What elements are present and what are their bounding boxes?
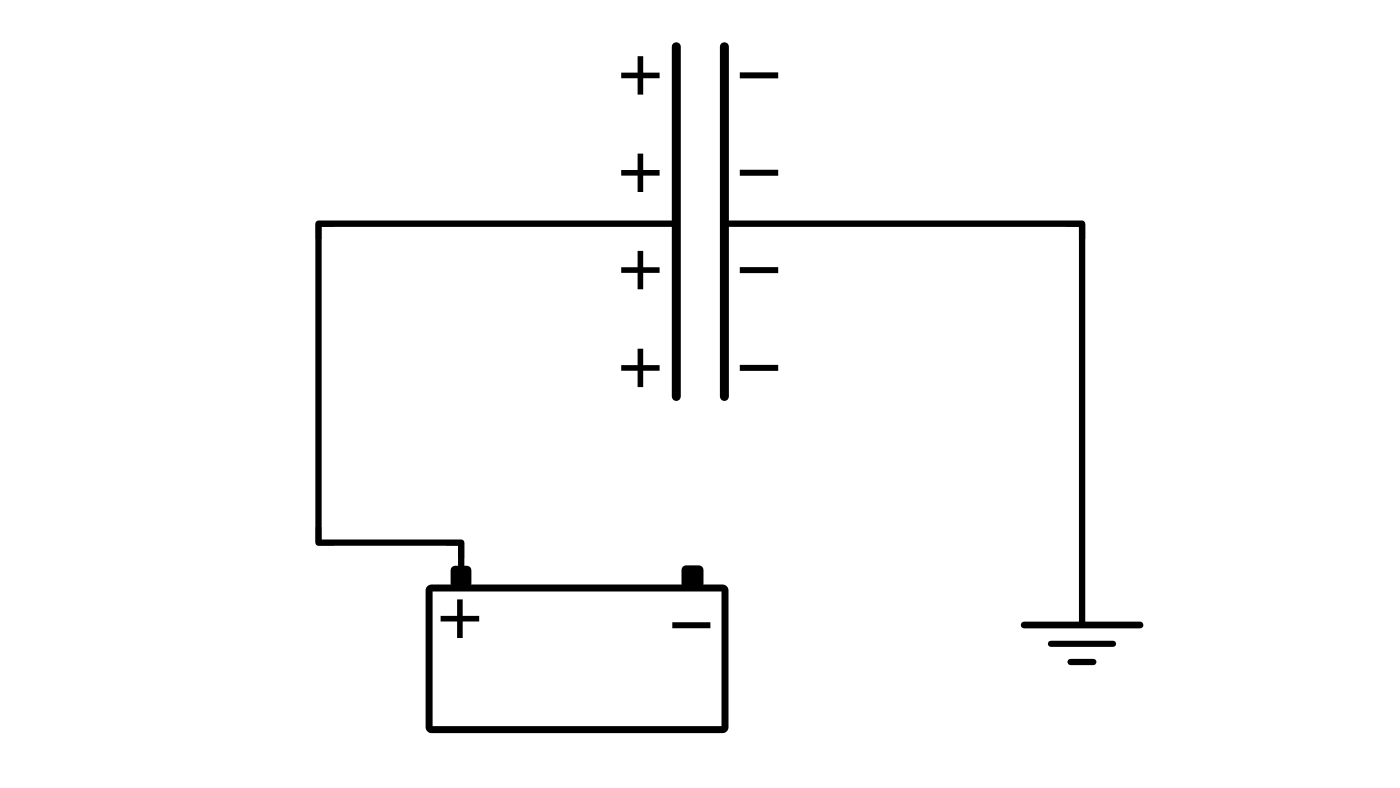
battery BT1 case	[429, 588, 725, 730]
minus charge symbol 3 on right plate	[740, 267, 778, 273]
minus charge symbol 1 on right plate	[740, 72, 778, 78]
ground symbol top bar	[1024, 622, 1140, 629]
wire: top-right horizontal from capacitor right plate	[724, 221, 1082, 227]
wire: short vertical drop into battery positive terminal	[458, 543, 464, 572]
ground symbol middle bar	[1051, 641, 1113, 647]
battery positive terminal post	[451, 566, 472, 588]
battery negative terminal post	[682, 565, 704, 588]
plus charge symbol 3 on left plate	[621, 251, 659, 289]
wire: bottom horizontal segment to battery positive lead	[319, 539, 462, 545]
battery positive polarity mark	[441, 599, 480, 638]
battery negative polarity mark	[672, 622, 710, 628]
plus charge symbol 1 on left plate	[621, 56, 659, 94]
wire junction: rounded corner at bottom-left	[319, 527, 335, 543]
capacitor C1 right plate	[720, 47, 729, 397]
wire junction: rounded corner at top-right	[1067, 224, 1083, 239]
wire: right vertical segment down to ground	[1079, 224, 1085, 625]
ground symbol bottom bar	[1071, 659, 1094, 665]
minus charge symbol 2 on right plate	[740, 170, 778, 176]
plus charge symbol 2 on left plate	[621, 154, 659, 192]
wire: top-left horizontal from capacitor left plate to left vertical drop	[319, 221, 677, 227]
wire: left vertical segment	[315, 224, 321, 543]
wire junction: rounded corner above battery positive terminal	[446, 543, 461, 558]
plus charge symbol 4 on left plate	[621, 349, 659, 387]
capacitor C1 left plate	[672, 47, 681, 397]
wire junction: rounded corner at top-left	[319, 224, 335, 239]
minus charge symbol 4 on right plate	[740, 365, 778, 371]
